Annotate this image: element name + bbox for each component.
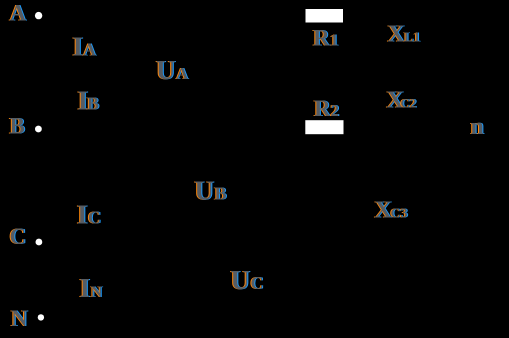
svg-text:L1: L1 [404,31,420,46]
voltage label UC [231,265,264,295]
current label IC [77,200,101,230]
svg-text:N: N [91,284,103,301]
wire phase B [42,127,305,129]
voltage label UB [195,176,227,206]
svg-text:2: 2 [331,101,340,120]
wire neutral N [44,317,470,319]
resistor R2 value label [314,96,339,121]
svg-text:1: 1 [330,31,339,50]
capacitor XC2 label [387,87,417,113]
svg-text:C: C [88,208,101,228]
node C label [10,224,27,249]
inductor XL1 label [388,22,421,48]
svg-text:R: R [313,26,330,51]
resistor R1 body [306,9,344,23]
current label IN [80,273,103,303]
svg-text:U: U [195,176,215,206]
node B label [10,114,25,139]
svg-text:N: N [11,306,28,331]
svg-text:C3: C3 [391,207,408,222]
svg-text:B: B [10,114,25,139]
capacitor XC3 label [375,198,408,224]
svg-text:I: I [73,32,84,62]
svg-text:I: I [80,273,91,303]
svg-text:U: U [231,265,251,295]
node B terminal dot [35,126,42,133]
wire phase C [42,241,430,243]
svg-text:B: B [215,184,227,204]
svg-text:C: C [10,224,27,249]
svg-text:R: R [314,96,331,121]
node A terminal dot [35,12,42,19]
node N terminal dot [38,314,44,320]
svg-text:A: A [10,1,27,26]
node A label [10,1,27,26]
resistor R2 body [305,120,343,134]
svg-text:C2: C2 [401,95,417,110]
svg-text:A: A [83,40,96,60]
current label IA [73,32,97,62]
node n label [471,114,484,140]
svg-text:A: A [176,64,189,83]
svg-text:U: U [156,55,176,85]
svg-text:C: C [251,273,264,293]
node C terminal dot [36,239,43,246]
svg-text:B: B [87,94,99,114]
current label IB [78,86,100,116]
svg-text:I: I [77,200,88,230]
svg-text:X: X [388,22,406,48]
resistor R1 value label [313,26,339,51]
wire phase A [42,15,305,17]
svg-text:n: n [471,114,484,140]
node N label [11,306,28,331]
voltage label UA [156,55,189,85]
